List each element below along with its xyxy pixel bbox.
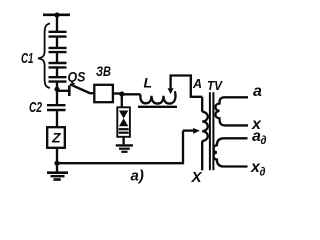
core bar under L (138, 106, 177, 108)
svg-text:a: a (253, 83, 262, 100)
svg-text:QS: QS (68, 69, 87, 85)
svg-text:TV: TV (207, 79, 224, 93)
node junction dot (arrester tap) (119, 91, 124, 96)
node junction dot (C1/C2/QS) (54, 87, 59, 92)
wire (56, 89, 58, 105)
breaker ЗВ box (94, 85, 113, 102)
node bottom-left junction dot (54, 161, 59, 166)
svg-text:а): а) (131, 168, 144, 185)
inductor L (variometer) (138, 91, 177, 107)
arrester FV (117, 94, 130, 137)
svg-text:X: X (191, 169, 203, 186)
svg-text:∂: ∂ (261, 133, 267, 147)
svg-text:∂: ∂ (260, 165, 266, 179)
wire stub (57, 90, 69, 92)
transformer core (209, 92, 211, 170)
svg-text:L: L (144, 75, 153, 91)
wire (56, 67, 58, 77)
wire tap arrow over L to node A (168, 76, 203, 97)
wire (56, 37, 58, 48)
top terminal bar (43, 14, 70, 17)
cap 3 plates (49, 62, 67, 64)
ground (left) (47, 163, 68, 179)
blade (70, 84, 90, 93)
transformer TV secondary winding 1 (a-x) (215, 97, 248, 125)
wire (56, 82, 58, 90)
wire (121, 94, 123, 107)
brace for C1 (38, 24, 50, 88)
wire (56, 52, 58, 63)
wire (56, 110, 58, 127)
transformer TV primary winding (202, 97, 208, 171)
wire bottom rail (57, 131, 183, 164)
svg-text:C2: C2 (29, 99, 42, 116)
switch QS (57, 84, 95, 96)
cap 4 plates (49, 76, 67, 78)
svg-text:ЗВ: ЗВ (96, 63, 111, 79)
svg-text:C1: C1 (21, 50, 34, 67)
capacitor C1 (series chain of 4) (49, 32, 67, 89)
capacitor C2 (47, 89, 66, 127)
tap arrow into TV primary (183, 129, 194, 131)
plates (47, 104, 66, 106)
svg-text:Z: Z (51, 130, 61, 146)
wire (122, 93, 141, 95)
wire (89, 92, 95, 94)
wire (113, 92, 122, 94)
transformer TV secondary winding 2 (a_d - x_d) (214, 138, 248, 166)
svg-text:A: A (192, 77, 202, 91)
wire (56, 148, 58, 163)
impedance Z box (47, 127, 65, 148)
cap 2 plates (49, 47, 67, 49)
node top junction dot (54, 12, 59, 17)
cap 1 plates (49, 31, 67, 33)
wire (56, 15, 58, 32)
contact post (68, 86, 71, 97)
ground (middle, arrester) (116, 137, 133, 152)
